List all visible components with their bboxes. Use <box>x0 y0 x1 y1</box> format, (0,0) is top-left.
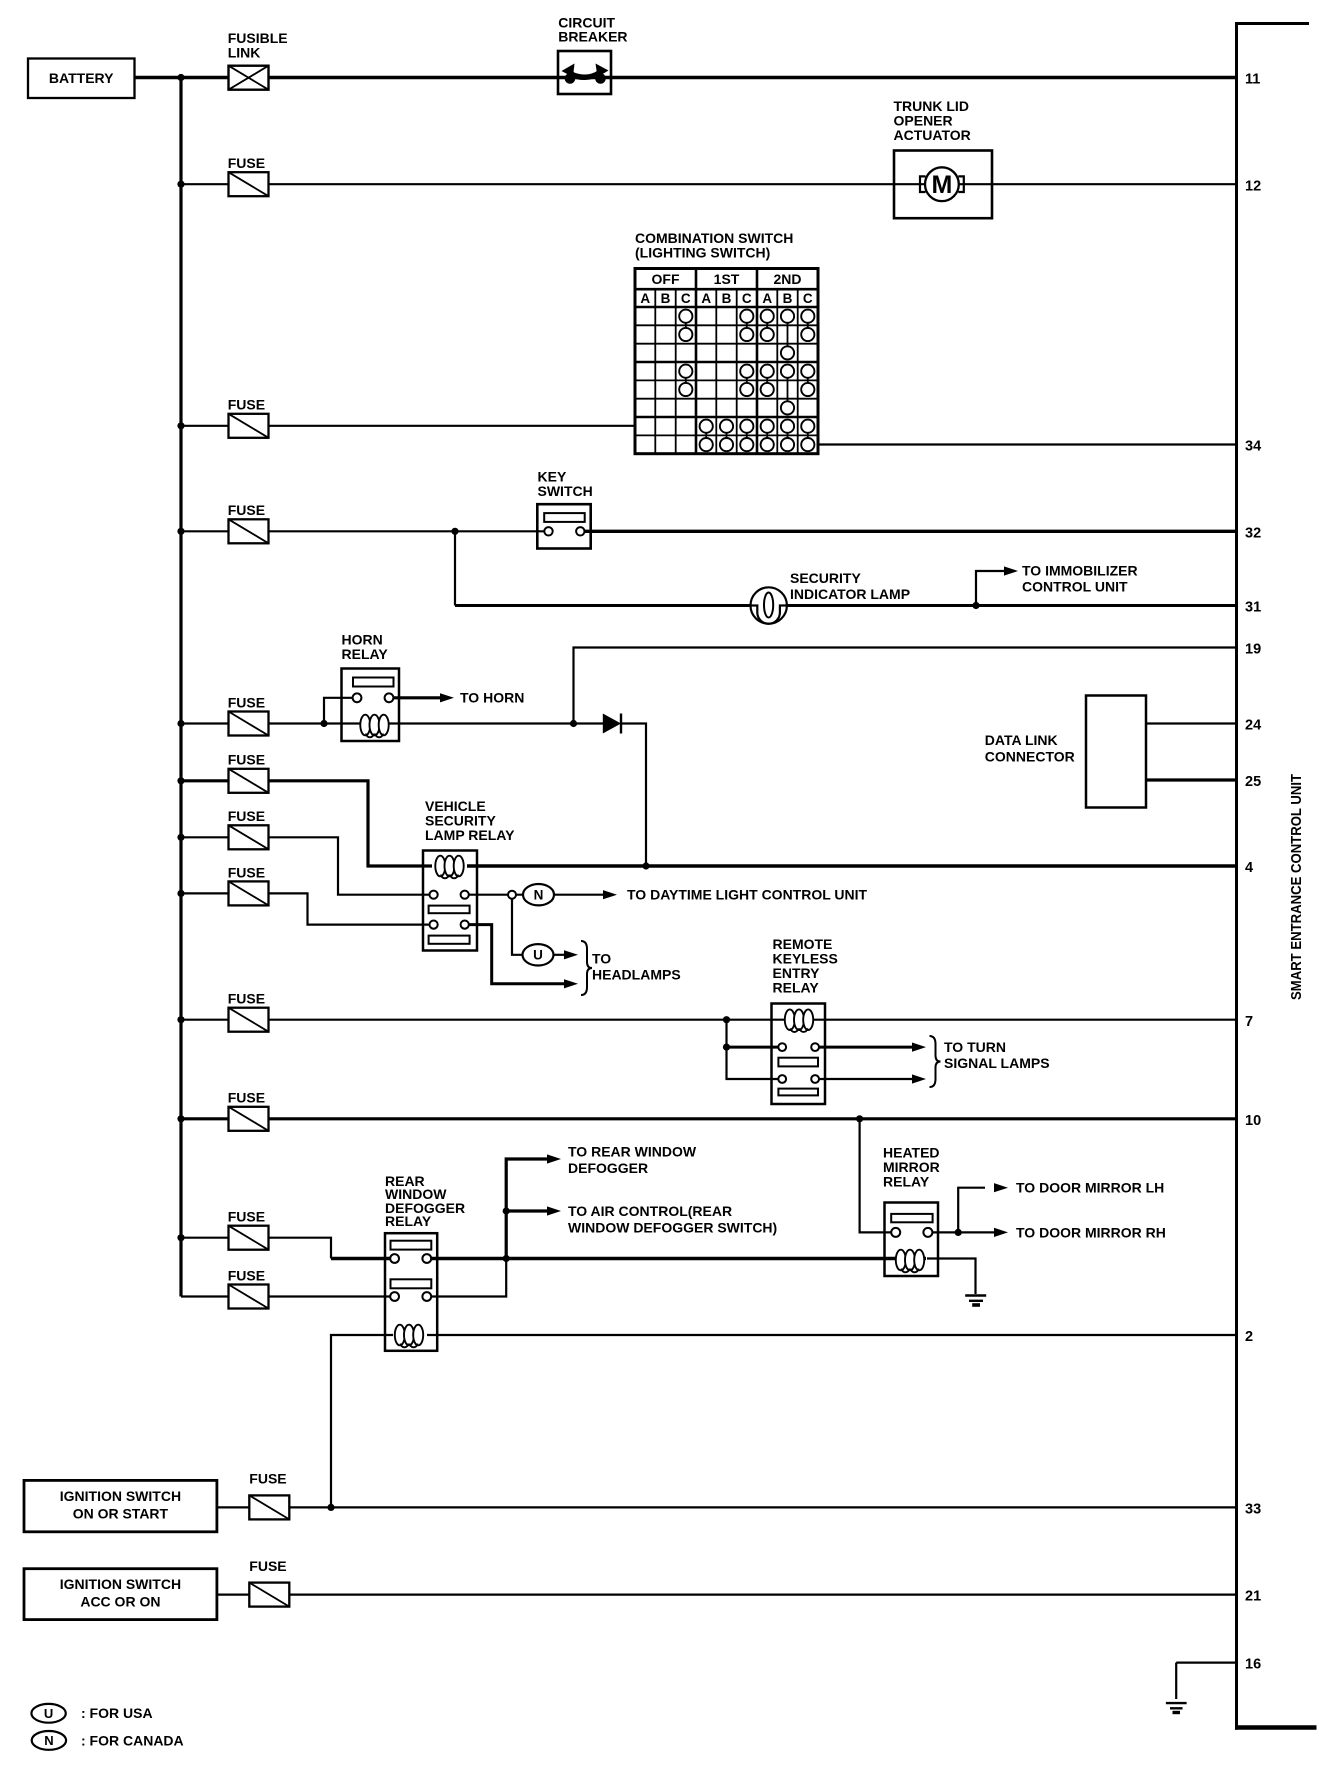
junction pin 10 branch <box>856 1115 863 1122</box>
data link connector X1 <box>1086 696 1146 808</box>
junction defogger output <box>503 1255 510 1262</box>
wire security relay lower contact to headlamps arrow <box>467 925 564 984</box>
wire security lamp relay coil to pin 4 <box>467 864 1237 867</box>
svg-text:N: N <box>534 888 544 903</box>
smart entrance control unit box <box>1235 22 1317 1730</box>
svg-text:TO AIR CONTROL(REAR: TO AIR CONTROL(REAR <box>568 1203 732 1219</box>
wire defogger relay terminal feed thick <box>331 1257 392 1260</box>
wire fuse F10 to pin 10 <box>181 1117 1237 1120</box>
svg-text:ON OR START: ON OR START <box>73 1505 169 1521</box>
junction keyless relay contact feed <box>723 1044 730 1051</box>
wire pin 19 from diode junction <box>574 648 1237 724</box>
fuse <box>228 155 269 196</box>
junction on power bus <box>177 1115 184 1122</box>
junction on power bus <box>177 528 184 535</box>
svg-text:DEFOGGER: DEFOGGER <box>568 1160 648 1176</box>
wire defogger relay coil to pin 2 <box>427 1334 1237 1336</box>
svg-text:FUSE: FUSE <box>228 1267 265 1283</box>
svg-text:TO IMMOBILIZER: TO IMMOBILIZER <box>1022 562 1138 578</box>
legend N for Canada <box>32 1731 66 1750</box>
wire fuse F12 to defogger lower terminal <box>181 1295 392 1297</box>
junction immobilizer branch <box>972 602 979 609</box>
rear window defogger relay K4 <box>385 1233 437 1351</box>
svg-text:C: C <box>742 291 752 306</box>
wire ignition switch on/start to fuse <box>217 1506 249 1508</box>
svg-text:TO DAYTIME LIGHT CONTROL UNIT: TO DAYTIME LIGHT CONTROL UNIT <box>627 887 868 903</box>
svg-text:RELAY: RELAY <box>883 1173 930 1189</box>
svg-text:IGNITION SWITCH: IGNITION SWITCH <box>60 1488 181 1504</box>
security indicator lamp L1 <box>751 587 787 623</box>
junction diode to pin 4 <box>642 862 649 869</box>
wire terminal branch down to U ellipse <box>512 895 524 955</box>
brace to turn signal lamps <box>930 1036 941 1087</box>
svg-text:SECURITY: SECURITY <box>790 570 861 586</box>
wire defogger relay output to heated mirror coil <box>429 1257 926 1260</box>
svg-text:FUSE: FUSE <box>228 694 265 710</box>
fuse <box>228 1267 269 1308</box>
wire pin 16 ground drop <box>1175 1663 1177 1699</box>
svg-text:SMART ENTRANCE CONTROL UNIT: SMART ENTRANCE CONTROL UNIT <box>1289 774 1305 1000</box>
junction on power bus <box>177 720 184 727</box>
svg-text:HEADLAMPS: HEADLAMPS <box>592 966 681 982</box>
diode D1 <box>603 714 621 734</box>
wire pin 10 branch to heated mirror relay <box>860 1119 893 1233</box>
svg-text:34: 34 <box>1245 439 1261 455</box>
svg-text:33: 33 <box>1245 1502 1261 1518</box>
svg-text:FUSE: FUSE <box>249 1558 286 1574</box>
svg-text:N: N <box>44 1733 53 1748</box>
wire fuse F9 to keyless relay coil to pin 7 <box>181 1019 1237 1021</box>
junction keyless relay coil feed <box>723 1016 730 1023</box>
battery box <box>28 59 135 99</box>
svg-text:INDICATOR LAMP: INDICATOR LAMP <box>790 586 910 602</box>
wire fuse F2 to trunk lid actuator to pin 12 <box>181 183 1237 185</box>
wire security relay to N terminal <box>467 894 534 896</box>
junction pin 33 / defogger coil <box>327 1504 334 1511</box>
svg-text:A: A <box>640 291 650 306</box>
wire combination switch to pin 34 <box>818 443 1237 445</box>
wire diode to pin 4 junction <box>621 724 646 867</box>
svg-text:10: 10 <box>1245 1113 1261 1129</box>
svg-text:16: 16 <box>1245 1657 1261 1673</box>
svg-text:CONNECTOR: CONNECTOR <box>985 748 1075 764</box>
remote keyless entry relay K3 <box>772 1004 826 1105</box>
wire fuse F7 to security relay terminal <box>181 837 431 894</box>
junction on power bus <box>177 181 184 188</box>
circuit breaker CB <box>558 51 611 94</box>
svg-text:(LIGHTING SWITCH): (LIGHTING SWITCH) <box>635 244 770 260</box>
svg-text:DATA LINK: DATA LINK <box>985 732 1058 748</box>
svg-text:FUSE: FUSE <box>228 1209 265 1225</box>
svg-text:BREAKER: BREAKER <box>558 28 627 44</box>
svg-text:SIGNAL LAMPS: SIGNAL LAMPS <box>944 1055 1050 1071</box>
wire defogger lower terminal loop <box>429 1259 506 1297</box>
wire horn relay branch to contact terminal <box>324 698 355 724</box>
svg-text:TO DOOR MIRROR LH: TO DOOR MIRROR LH <box>1016 1180 1164 1196</box>
fusible link FL <box>229 66 269 90</box>
svg-text:: FOR USA: : FOR USA <box>81 1705 153 1721</box>
svg-text:RELAY: RELAY <box>342 646 389 662</box>
svg-text:BATTERY: BATTERY <box>49 70 114 86</box>
wire fuse to pin 21 <box>289 1593 1236 1595</box>
svg-text:CONTROL UNIT: CONTROL UNIT <box>1022 578 1128 594</box>
wire key switch branch down to security lamp line <box>454 531 456 605</box>
heated mirror relay K5 <box>885 1203 939 1277</box>
ground heated mirror relay <box>965 1296 986 1306</box>
svg-text:FUSE: FUSE <box>228 502 265 518</box>
label smart entrance control unit <box>1289 774 1305 1000</box>
svg-text:FUSE: FUSE <box>228 991 265 1007</box>
wire key switch to pin 32 <box>581 530 1237 533</box>
svg-text:B: B <box>661 291 671 306</box>
svg-text:21: 21 <box>1245 1589 1261 1605</box>
junction on power bus <box>177 422 184 429</box>
svg-text:31: 31 <box>1245 600 1261 616</box>
svg-text:FUSE: FUSE <box>228 808 265 824</box>
wire fuse F4 to key switch <box>181 530 548 532</box>
junction to air control branch <box>503 1207 510 1214</box>
N option terminal <box>508 891 516 899</box>
fuse <box>228 991 269 1032</box>
svg-text:RELAY: RELAY <box>385 1213 432 1229</box>
junction horn relay branch <box>320 720 327 727</box>
svg-text:RELAY: RELAY <box>773 979 820 995</box>
fuse <box>249 1583 289 1607</box>
arrow to air control <box>506 1206 561 1215</box>
svg-text:A: A <box>762 291 772 306</box>
arrow to rear window defogger <box>547 1154 561 1163</box>
wire door mirror LH branch <box>958 1188 985 1233</box>
fuse <box>228 864 269 905</box>
junction on power bus <box>177 1016 184 1023</box>
wire battery to fusible link to circuit breaker to pin 11 <box>135 76 1237 79</box>
arrow to door mirror RH <box>958 1228 1008 1237</box>
wire ignition switch acc/on to fuse <box>217 1593 249 1595</box>
svg-text:TO HORN: TO HORN <box>460 690 524 706</box>
svg-text:FUSE: FUSE <box>249 1470 286 1486</box>
wire defogger relay coil to ignition junction <box>331 1335 393 1507</box>
junction on power bus <box>177 834 184 841</box>
combination switch (lighting switch) S1 <box>635 269 818 454</box>
svg-text:24: 24 <box>1245 718 1261 734</box>
svg-text:TO REAR WINDOW: TO REAR WINDOW <box>568 1143 697 1159</box>
svg-text:FUSE: FUSE <box>228 1090 265 1106</box>
fuse <box>228 808 269 849</box>
U for-usa ellipse <box>523 944 554 965</box>
wire N ellipse to daytime light arrow <box>553 890 617 899</box>
ground pin 16 <box>1166 1703 1187 1712</box>
key switch S2 <box>537 504 590 548</box>
svg-text:: FOR CANADA: : FOR CANADA <box>81 1732 184 1748</box>
svg-text:U: U <box>44 1706 53 1721</box>
svg-text:SWITCH: SWITCH <box>538 483 593 499</box>
svg-text:U: U <box>533 948 543 963</box>
svg-text:B: B <box>722 291 732 306</box>
svg-text:TO: TO <box>592 950 611 966</box>
wire horn relay coil to diode <box>389 722 603 724</box>
wire fuse F3 to combination switch <box>181 425 635 427</box>
junction on power bus <box>177 1234 184 1241</box>
wire heated mirror relay to door mirror junction <box>929 1231 959 1233</box>
junction key switch branch <box>451 528 458 535</box>
svg-text:TO DOOR MIRROR RH: TO DOOR MIRROR RH <box>1016 1224 1166 1240</box>
svg-text:2ND: 2ND <box>773 271 801 287</box>
svg-text:C: C <box>681 291 691 306</box>
vehicle security lamp relay K2 <box>423 851 477 951</box>
wire fuse F6 to security lamp relay coil <box>181 781 432 866</box>
svg-text:FUSE: FUSE <box>228 155 265 171</box>
svg-text:IGNITION SWITCH: IGNITION SWITCH <box>60 1576 181 1592</box>
junction diode / pin 19 <box>570 720 577 727</box>
svg-text:11: 11 <box>1245 72 1260 88</box>
svg-text:ACTUATOR: ACTUATOR <box>894 127 971 143</box>
svg-text:1ST: 1ST <box>714 271 740 287</box>
svg-text:FUSE: FUSE <box>228 397 265 413</box>
svg-text:C: C <box>803 291 813 306</box>
wire left power bus vertical <box>179 78 182 1297</box>
wire defogger output up to rear window arrows <box>506 1159 548 1259</box>
wire fuse F5 to horn relay coil <box>181 722 360 724</box>
svg-text:12: 12 <box>1245 178 1261 194</box>
svg-text:2: 2 <box>1245 1329 1253 1345</box>
wire data link connector to pin 25 <box>1146 778 1237 781</box>
ignition switch acc or on box <box>24 1569 217 1620</box>
ignition switch on or start box <box>24 1480 217 1531</box>
fuse <box>249 1495 289 1519</box>
wire keyless relay branch vertical <box>727 1020 780 1079</box>
svg-text:4: 4 <box>1245 860 1253 876</box>
wire fuse F11 to defogger relay terminal <box>181 1238 331 1259</box>
fuse <box>228 397 269 438</box>
fuse <box>228 694 269 735</box>
svg-text:B: B <box>783 291 793 306</box>
svg-text:FUSE: FUSE <box>228 752 265 768</box>
fuse <box>228 502 269 543</box>
junction on power bus <box>177 777 184 784</box>
horn relay K1 <box>342 669 400 742</box>
svg-text:A: A <box>701 291 711 306</box>
legend U for USA <box>31 1704 65 1723</box>
junction on power bus <box>177 890 184 897</box>
wire pin 16 to ground <box>1176 1661 1236 1663</box>
svg-text:ACC OR ON: ACC OR ON <box>80 1593 160 1609</box>
arrow to immobilizer control unit <box>1004 566 1018 575</box>
wire heated mirror coil to ground <box>927 1259 976 1295</box>
svg-text:32: 32 <box>1245 525 1261 541</box>
wire keyless relay upper terminal feed <box>727 1046 780 1049</box>
svg-text:7: 7 <box>1245 1014 1253 1030</box>
svg-text:FUSE: FUSE <box>228 864 265 880</box>
fuse <box>228 752 269 793</box>
fuse <box>228 1090 269 1131</box>
wire immobilizer branch <box>976 571 1005 606</box>
svg-text:WINDOW DEFOGGER SWITCH): WINDOW DEFOGGER SWITCH) <box>568 1219 777 1235</box>
trunk lid opener actuator M1 <box>894 151 992 219</box>
wire to horn arrow <box>393 693 454 702</box>
svg-text:25: 25 <box>1245 774 1261 790</box>
arrow to door mirror LH <box>994 1183 1008 1192</box>
svg-text:LAMP RELAY: LAMP RELAY <box>425 827 515 843</box>
wire fuse to pin 33 <box>289 1506 1236 1508</box>
wire data link connector to pin 24 <box>1146 722 1237 724</box>
wire fuse F8 to security relay lower terminal <box>181 893 431 924</box>
fuse <box>228 1209 269 1250</box>
wire keyless relay to turn signal arrow 2 <box>818 1074 926 1083</box>
svg-text:19: 19 <box>1245 642 1261 658</box>
N for-canada ellipse <box>523 884 554 905</box>
junction battery tee <box>177 74 184 81</box>
svg-text:TO TURN: TO TURN <box>944 1039 1006 1055</box>
brace to headlamps <box>581 941 592 995</box>
svg-text:LINK: LINK <box>228 44 261 60</box>
wire security indicator lamp to pin 31 <box>455 604 1237 607</box>
svg-text:M: M <box>931 171 952 199</box>
wire U ellipse to headlamps arrow <box>552 950 578 959</box>
wire keyless relay to turn signal arrow 1 <box>818 1043 926 1052</box>
junction door mirror branch <box>955 1229 962 1236</box>
arrow to headlamps lower <box>564 979 578 988</box>
svg-text:OFF: OFF <box>652 271 680 287</box>
